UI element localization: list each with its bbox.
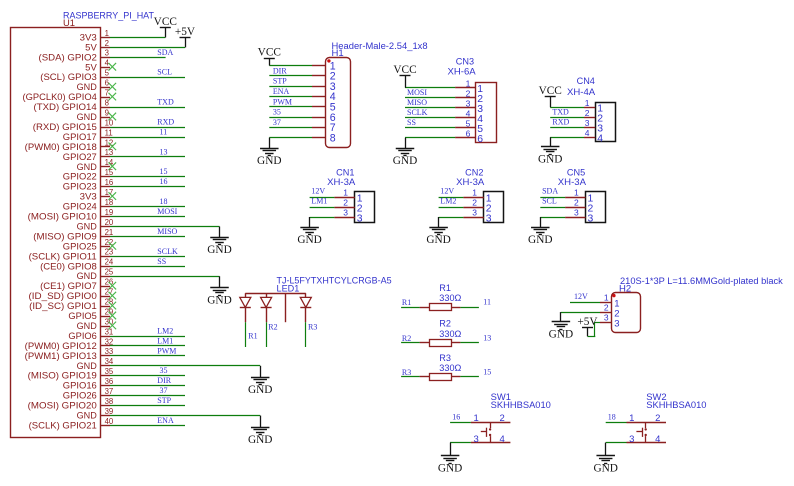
svg-text:15: 15 <box>105 168 114 177</box>
net label 15 (R3 right) <box>483 367 491 376</box>
no-connect X on U1 pin 28 <box>109 302 117 310</box>
U1 pin 34 GND <box>77 357 114 371</box>
U1 pin 38 (MOSI) GPIO20 <box>28 397 114 411</box>
svg-text:MOSI: MOSI <box>157 207 177 216</box>
svg-text:PWM: PWM <box>273 97 292 106</box>
net label SDA (CN5 pin1) <box>542 187 558 196</box>
svg-text:XH-3A: XH-3A <box>558 177 586 187</box>
svg-text:36: 36 <box>105 377 114 386</box>
wire SW2 pin3 to GND <box>606 442 627 444</box>
wire SW1 pin3 to GND <box>450 442 471 444</box>
svg-text:37: 37 <box>105 387 114 396</box>
svg-text:GND: GND <box>248 384 272 396</box>
wire H1 pin 6 net 35 <box>269 117 312 119</box>
svg-text:GPIO6: GPIO6 <box>68 331 97 341</box>
svg-text:CN5: CN5 <box>567 167 585 177</box>
svg-text:8: 8 <box>330 132 336 144</box>
pushbutton switch SW1 SKHHBSA010 <box>471 392 551 445</box>
net label DIR <box>157 376 171 385</box>
svg-text:6: 6 <box>105 79 109 88</box>
svg-text:16: 16 <box>105 178 114 187</box>
svg-text:37: 37 <box>273 118 281 127</box>
svg-text:XH-6A: XH-6A <box>448 67 476 77</box>
svg-text:4: 4 <box>500 434 505 445</box>
svg-text:5: 5 <box>466 118 471 128</box>
power symbol +5V (U1 pin2) <box>175 26 196 48</box>
svg-text:3: 3 <box>466 98 471 108</box>
svg-text:MISO: MISO <box>407 98 427 107</box>
power symbol VCC (CN3) <box>393 64 416 88</box>
wire U1 pin 32 net LM1 <box>110 345 185 347</box>
wire U1 pin 8 net TXD <box>110 107 185 109</box>
svg-text:DIR: DIR <box>157 376 171 385</box>
net label 18 (SW2 pin1) <box>608 412 616 421</box>
svg-text:CN3: CN3 <box>456 57 474 67</box>
net label SCL <box>157 68 172 77</box>
U1 pin 6 GND <box>77 79 110 93</box>
svg-text:R1: R1 <box>439 283 451 293</box>
net label PWM (H1 pin 5) <box>273 97 292 106</box>
svg-text:35: 35 <box>160 366 168 375</box>
power symbol VCC (CN4) <box>539 85 562 107</box>
svg-text:GND: GND <box>77 321 97 331</box>
wire U1 pin 37 net 37 <box>110 395 185 397</box>
svg-text:(ID_SC) GPIO1: (ID_SC) GPIO1 <box>29 301 97 311</box>
U1 pin 20 GND <box>77 218 114 232</box>
wire U1 pin2 to +5V <box>110 47 185 49</box>
svg-text:H2: H2 <box>619 284 631 294</box>
wire CN5 pin2 net SCL <box>540 207 565 209</box>
ground symbol (H1 pin8) <box>257 138 281 168</box>
svg-text:3: 3 <box>486 214 492 225</box>
svg-text:(TXD) GPIO14: (TXD) GPIO14 <box>34 102 97 112</box>
net label SCL (CN5 pin2) <box>542 197 557 206</box>
wire U1 pin 20 GND <box>110 226 220 228</box>
svg-text:DIR: DIR <box>273 66 287 75</box>
wire R2 left net R2 <box>401 342 420 344</box>
wire U1 pin 5 net SCL <box>110 77 185 79</box>
net label STP <box>157 396 171 405</box>
wire H1 pin 7 net 37 <box>269 127 312 129</box>
svg-text:LM1: LM1 <box>157 336 173 345</box>
svg-text:210S-1*3P L=11.6MMGold-plated: 210S-1*3P L=11.6MMGold-plated black <box>620 276 783 286</box>
ground symbol (H2 pin2) <box>549 312 573 341</box>
svg-text:1: 1 <box>466 78 471 88</box>
svg-text:3: 3 <box>604 313 609 323</box>
wire CN3 pin 5 net SS <box>405 127 455 129</box>
svg-text:8: 8 <box>105 98 109 107</box>
svg-text:16: 16 <box>452 412 460 421</box>
wire U1 pin 11 net 11 <box>110 137 185 139</box>
net label LM1 <box>157 336 173 345</box>
U1 pin 39 GND <box>77 407 114 421</box>
svg-text:20: 20 <box>105 218 114 227</box>
U1 pin 19 (MOSI) GPIO10 <box>28 208 114 222</box>
U1 pin 23 (SCLK) GPIO11 <box>29 248 114 262</box>
U1 pin 24 (CE0) GPIO8 <box>40 258 114 272</box>
svg-text:RXD: RXD <box>552 118 569 127</box>
ground symbol (SW2 pin3) <box>593 443 617 475</box>
wire R3 left net R3 <box>401 376 420 378</box>
U1 pin 2 5V <box>85 39 110 53</box>
svg-text:2: 2 <box>574 198 579 208</box>
U1 pin 8 (TXD) GPIO14 <box>34 98 111 112</box>
net label R2 (LED1) <box>268 322 277 331</box>
svg-text:GND: GND <box>77 361 97 371</box>
svg-text:GND: GND <box>248 434 272 446</box>
no-connect X on U1 pin 7 <box>109 93 117 101</box>
svg-text:TXD: TXD <box>552 108 569 117</box>
svg-text:SS: SS <box>407 118 416 127</box>
svg-text:GND: GND <box>77 221 97 231</box>
wire H2 pin3 to +5V <box>588 322 601 336</box>
no-connect X on U1 pin 27 <box>109 292 117 300</box>
svg-text:GND: GND <box>393 155 417 167</box>
svg-text:SKHHBSA010: SKHHBSA010 <box>646 400 706 410</box>
wire U1 pin 38 net STP <box>110 405 185 407</box>
power symbol VCC (H1) <box>258 46 281 65</box>
U1 pin 37 GPIO26 <box>63 387 113 401</box>
svg-text:33: 33 <box>105 347 114 356</box>
no-connect X on U1 pin 6 <box>109 83 117 91</box>
U1 pin 40 (SCLK) GPIO21 <box>29 417 114 431</box>
svg-text:21: 21 <box>105 228 114 237</box>
wire CN4 pin 2 net TXD <box>550 117 584 119</box>
net label SDA <box>157 48 173 57</box>
wire CN5 pin1 net SDA <box>540 197 565 199</box>
svg-text:38: 38 <box>105 397 114 406</box>
svg-text:3V3: 3V3 <box>80 32 97 42</box>
wire U1 pin 16 net 16 <box>110 186 185 188</box>
connector CN2 XH-3A <box>456 167 503 224</box>
U1 pin 5 (SCL) GPIO3 <box>40 69 110 83</box>
no-connect X on U1 pin 26 <box>109 282 117 290</box>
svg-text:CN4: CN4 <box>577 76 595 86</box>
wire H1 pin 2 net DIR <box>269 75 312 77</box>
svg-text:3: 3 <box>472 208 477 218</box>
svg-text:39: 39 <box>105 407 114 416</box>
wire U1 pin 13 net 13 <box>110 156 185 158</box>
svg-text:GND: GND <box>77 271 97 281</box>
svg-text:3: 3 <box>614 319 619 330</box>
no-connect X on U1 pin 9 <box>109 113 117 121</box>
svg-text:(CE1) GPIO7: (CE1) GPIO7 <box>40 281 97 291</box>
svg-text:H1: H1 <box>332 48 344 58</box>
net label 18 <box>160 197 168 206</box>
svg-text:3: 3 <box>105 49 109 58</box>
svg-text:4: 4 <box>585 128 590 138</box>
net label 11 <box>160 127 168 136</box>
no-connect X on U1 pin 14 <box>109 162 117 170</box>
svg-text:GND: GND <box>77 112 97 122</box>
svg-text:16: 16 <box>160 177 168 186</box>
svg-text:U1: U1 <box>63 18 75 28</box>
svg-text:(RXD) GPIO15: (RXD) GPIO15 <box>33 122 97 132</box>
svg-text:(MISO) GPIO9: (MISO) GPIO9 <box>33 231 97 241</box>
U1 pin 3 (SDA) GPIO2 <box>39 49 111 63</box>
svg-text:XH-3A: XH-3A <box>456 177 484 187</box>
ground symbol (CN5 pin3) <box>528 217 552 246</box>
svg-text:Header-Male-2.54_1x8: Header-Male-2.54_1x8 <box>332 41 428 51</box>
svg-text:GND: GND <box>207 295 231 307</box>
wire U1 pin 24 net SS <box>110 266 185 268</box>
resistor R3 330 ohm <box>420 353 462 381</box>
svg-text:+5V: +5V <box>175 26 196 38</box>
U1 pin 13 GPIO27 <box>63 148 113 162</box>
svg-text:STP: STP <box>157 396 171 405</box>
net label TXD (CN4 pin 2) <box>552 108 569 117</box>
wire U1 pin 15 net 15 <box>110 176 185 178</box>
svg-text:GPIO27: GPIO27 <box>63 152 97 162</box>
svg-text:CN1: CN1 <box>336 167 354 177</box>
wire H1 pin 5 net PWM <box>269 106 312 108</box>
wire U1 pin 3 net SDA <box>110 57 166 59</box>
no-connect X on U1 pin 30 <box>109 322 117 330</box>
wire CN3 pin 2 net MOSI <box>405 97 455 99</box>
wire U1 pin1 to VCC <box>110 37 165 39</box>
U1 pin 22 GPIO25 <box>63 238 113 252</box>
wire U1 pin 25 GND <box>110 276 220 278</box>
svg-text:GND: GND <box>297 234 321 246</box>
wire H2 pin1 net 12V <box>570 302 600 304</box>
U1 pin 10 (RXD) GPIO15 <box>33 118 114 132</box>
svg-text:37: 37 <box>160 386 168 395</box>
wire CN3 pin6 to GND <box>405 137 455 139</box>
svg-text:5V: 5V <box>85 42 97 52</box>
U1 pin 30 GND <box>77 317 114 331</box>
wire SW2 pin1 net 18 <box>606 422 627 424</box>
svg-text:12V: 12V <box>440 187 454 196</box>
net label R1 (R1 left) <box>402 298 411 307</box>
U1 pin 28 (ID_SC) GPIO1 <box>29 297 113 311</box>
U1 pin 16 GPIO23 <box>63 178 113 192</box>
net label LM2 <box>157 326 173 335</box>
svg-text:330Ω: 330Ω <box>439 329 462 339</box>
wire CN2 pin3 to GND <box>439 217 464 219</box>
net label R3 (LED1) <box>308 322 317 331</box>
svg-text:CN2: CN2 <box>465 167 483 177</box>
svg-text:GPIO17: GPIO17 <box>63 132 97 142</box>
ground symbol (CN3 pin6) <box>393 138 417 168</box>
wire CN1 pin3 to GND <box>310 217 335 219</box>
svg-text:1: 1 <box>343 188 348 198</box>
net label MISO <box>157 227 177 236</box>
U1 pin 14 GND <box>77 158 114 172</box>
svg-text:2: 2 <box>500 413 505 424</box>
svg-text:(ID_SD) GPIO0: (ID_SD) GPIO0 <box>29 291 97 301</box>
pin header H2 210S-1*3P <box>600 276 783 333</box>
svg-text:GND: GND <box>549 329 573 341</box>
wire R3 right net 15 <box>460 376 479 378</box>
svg-text:GND: GND <box>538 154 562 166</box>
svg-text:VCC: VCC <box>258 46 281 58</box>
net label 37 <box>160 386 168 395</box>
wire H1 pin1 to VCC <box>269 65 312 67</box>
net label ENA <box>157 416 174 425</box>
IC U1 RASPBERRY_PI_HAT body <box>11 11 155 438</box>
svg-text:7: 7 <box>105 89 109 98</box>
svg-text:19: 19 <box>105 208 114 217</box>
svg-text:R1: R1 <box>402 298 411 307</box>
ground symbol (SW1 pin3) <box>438 443 462 475</box>
svg-text:SKHHBSA010: SKHHBSA010 <box>491 400 551 410</box>
svg-text:GPIO16: GPIO16 <box>63 381 97 391</box>
power symbol VCC (U1 pin1) <box>154 16 177 37</box>
ground symbol (U1 pin 34) <box>248 366 272 396</box>
net label 37 (H1 pin 7) <box>273 118 281 127</box>
U1 pin 4 5V <box>85 59 110 73</box>
svg-text:GND: GND <box>528 234 552 246</box>
connector CN5 XH-3A <box>558 167 606 224</box>
svg-text:R2: R2 <box>402 334 411 343</box>
ground symbol (CN4 pin4) <box>538 137 562 165</box>
svg-text:R2: R2 <box>268 322 277 331</box>
svg-text:1: 1 <box>574 188 579 198</box>
net label 35 (H1 pin 6) <box>273 108 281 117</box>
net label TXD <box>157 98 174 107</box>
svg-text:(SCLK) GPIO21: (SCLK) GPIO21 <box>29 420 97 430</box>
wire CN3 pin 4 net SCLK <box>405 117 455 119</box>
net label 13 <box>160 147 168 156</box>
svg-text:15: 15 <box>160 167 168 176</box>
svg-text:MISO: MISO <box>157 227 177 236</box>
wire R1 right net 11 <box>460 307 479 309</box>
svg-text:RASPBERRY_PI_HAT: RASPBERRY_PI_HAT <box>63 11 155 21</box>
no-connect X on U1 pin 17 <box>109 192 117 200</box>
svg-text:13: 13 <box>483 333 491 342</box>
svg-text:23: 23 <box>105 248 114 257</box>
svg-text:3: 3 <box>574 208 579 218</box>
svg-text:2: 2 <box>466 88 471 98</box>
svg-text:2: 2 <box>105 39 109 48</box>
svg-text:VCC: VCC <box>154 16 177 28</box>
svg-text:R3: R3 <box>308 322 317 331</box>
svg-text:35: 35 <box>273 108 281 117</box>
wire SW1 pin1 net 16 <box>450 422 471 424</box>
U1 pin 36 GPIO16 <box>63 377 113 391</box>
wire U1 pin 36 net DIR <box>110 385 185 387</box>
svg-text:GND: GND <box>257 155 281 167</box>
U1 pin 11 GPIO17 <box>63 128 113 142</box>
svg-text:3: 3 <box>357 214 363 225</box>
net label MOSI (CN3 pin 2) <box>407 88 427 97</box>
connector CN3 XH-6A <box>448 57 497 145</box>
wire R2 right net 13 <box>460 342 479 344</box>
svg-text:GPIO5: GPIO5 <box>68 311 97 321</box>
wire CN1 pin1 net 12V <box>310 197 335 199</box>
U1 pin 27 (ID_SD) GPIO0 <box>29 288 114 302</box>
svg-text:SCLK: SCLK <box>407 108 428 117</box>
svg-text:SDA: SDA <box>157 48 173 57</box>
svg-text:SCLK: SCLK <box>157 247 178 256</box>
wire CN4 pin1 to VCC <box>550 107 584 109</box>
svg-text:3: 3 <box>585 118 590 128</box>
svg-text:GPIO23: GPIO23 <box>63 182 97 192</box>
no-connect X on U1 pin 29 <box>109 312 117 320</box>
net label PWM <box>157 346 176 355</box>
svg-text:R1: R1 <box>248 332 257 341</box>
svg-text:XH-3A: XH-3A <box>327 177 355 187</box>
svg-text:LM2: LM2 <box>440 197 456 206</box>
U1 pin 1 3V3 <box>80 29 110 43</box>
svg-text:2: 2 <box>472 198 477 208</box>
svg-text:12V: 12V <box>574 292 588 301</box>
svg-text:9: 9 <box>105 108 109 117</box>
wire U1 pin 23 net SCLK <box>110 256 185 258</box>
wire H1 pin 3 net STP <box>269 86 312 88</box>
wire CN3 pin 3 net MISO <box>405 107 455 109</box>
U1 pin 26 (CE1) GPIO7 <box>40 278 113 292</box>
wire U1 pin 33 net PWM <box>110 355 185 357</box>
wire LED1 green cathode net R2 <box>266 322 268 347</box>
svg-text:(CE0) GPIO8: (CE0) GPIO8 <box>40 261 97 271</box>
svg-text:(MOSI) GPIO10: (MOSI) GPIO10 <box>28 212 97 222</box>
svg-text:11: 11 <box>483 298 491 307</box>
svg-text:11: 11 <box>105 128 113 137</box>
svg-text:GND: GND <box>438 463 462 475</box>
wire H1 pin 4 net ENA <box>269 96 312 98</box>
net label STP (H1 pin 3) <box>273 77 287 86</box>
ground symbol (U1 pin 39) <box>248 416 272 447</box>
U1 pin 25 GND <box>77 268 114 282</box>
svg-text:11: 11 <box>160 127 168 136</box>
svg-text:GPIO26: GPIO26 <box>63 391 97 401</box>
net label SS <box>157 257 166 266</box>
svg-text:(SDA) GPIO2: (SDA) GPIO2 <box>39 52 97 62</box>
svg-text:40: 40 <box>105 417 114 426</box>
net label R2 (R2 left) <box>402 334 411 343</box>
svg-text:35: 35 <box>105 367 114 376</box>
svg-text:LED1: LED1 <box>277 284 300 294</box>
svg-text:GND: GND <box>77 162 97 172</box>
net label RXD (CN4 pin 3) <box>552 118 569 127</box>
net label SCLK (CN3 pin 4) <box>407 108 428 117</box>
net label 35 <box>160 366 168 375</box>
svg-text:SDA: SDA <box>542 187 558 196</box>
net label 16 (SW1 pin1) <box>452 412 460 421</box>
svg-text:GND: GND <box>207 244 231 256</box>
svg-text:MOSI: MOSI <box>407 88 427 97</box>
net label R3 (R3 left) <box>402 368 411 377</box>
net label RXD <box>157 117 174 126</box>
pushbutton switch SW2 SKHHBSA010 <box>627 392 707 445</box>
svg-text:18: 18 <box>160 197 168 206</box>
svg-text:2: 2 <box>655 413 660 424</box>
wire H1 pin8 to GND <box>269 137 312 139</box>
svg-text:RXD: RXD <box>157 117 174 126</box>
svg-text:SS: SS <box>157 257 166 266</box>
svg-text:5: 5 <box>105 69 110 78</box>
wire CN1 pin2 net LM1 <box>310 207 335 209</box>
svg-text:VCC: VCC <box>393 64 416 76</box>
svg-text:1: 1 <box>585 98 590 108</box>
net label 15 <box>160 167 168 176</box>
svg-text:1: 1 <box>629 413 634 424</box>
svg-text:3: 3 <box>343 208 348 218</box>
connector CN1 XH-3A <box>327 167 374 224</box>
svg-text:25: 25 <box>105 268 114 277</box>
wire CN4 pin4 to GND <box>550 137 584 139</box>
svg-text:1: 1 <box>474 413 479 424</box>
svg-text:10: 10 <box>105 118 114 127</box>
U1 pin 17 3V3 <box>80 188 114 202</box>
wire CN3 pin1 to VCC <box>405 87 455 89</box>
svg-text:4: 4 <box>597 134 603 145</box>
wire H2 pin2 to GND <box>561 312 600 314</box>
U1 pin 31 GPIO6 <box>68 327 113 341</box>
net label 12V (CN2 pin1) <box>440 187 454 196</box>
no-connect X on U1 pin 22 <box>109 242 117 250</box>
